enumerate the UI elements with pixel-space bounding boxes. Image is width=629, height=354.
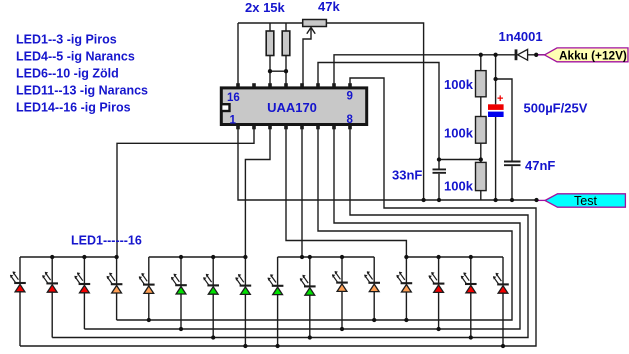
wire 500uF top xyxy=(495,55,497,105)
svg-text:33nF: 33nF xyxy=(392,168,422,183)
LED4 orange xyxy=(107,257,123,320)
svg-text:500µF/25V: 500µF/25V xyxy=(524,101,588,116)
wire pin 5 to LED group3 cathode bus feed xyxy=(301,126,303,257)
wire 47nF branch top xyxy=(496,79,512,161)
wire pin 7 to LED row B route xyxy=(84,126,520,329)
svg-text:LED1--3 -ig Piros: LED1--3 -ig Piros xyxy=(16,33,117,47)
svg-text:LED14--16 -ig Piros: LED14--16 -ig Piros xyxy=(16,101,131,115)
LED1 red xyxy=(10,257,26,346)
LED11 orange xyxy=(332,257,348,329)
svg-text:LED1------16: LED1------16 xyxy=(71,234,142,248)
wire 33nF bottom to Test net xyxy=(438,174,440,200)
resistor R5 100k xyxy=(476,162,487,190)
svg-text:1: 1 xyxy=(230,114,237,126)
wire 500uF bottom to Test net xyxy=(495,117,497,200)
LED9 green xyxy=(268,257,284,346)
wire leader to Akku flag xyxy=(536,54,545,56)
LED13 orange xyxy=(396,257,412,320)
svg-text:LED11--13 -ig Narancs: LED11--13 -ig Narancs xyxy=(16,84,148,98)
svg-text:47k: 47k xyxy=(318,0,340,14)
svg-text:Akku (+12V): Akku (+12V) xyxy=(559,48,627,62)
svg-text:+: + xyxy=(497,93,503,105)
resistor R4 100k xyxy=(476,117,487,144)
LED16 red xyxy=(493,257,509,346)
diode D1 1n4001 cathode bar xyxy=(515,49,518,60)
resistor R1 15k top stub xyxy=(269,23,271,31)
wire pin 16 vertical xyxy=(237,23,239,87)
wire pot right terminal down to Test net xyxy=(326,23,423,200)
LED14 red xyxy=(429,257,445,329)
IC pin stubs xyxy=(236,83,352,129)
wire 33nF junction link xyxy=(439,159,481,161)
LED8 green xyxy=(235,257,251,346)
wire pin 4 to LED group4 cathode bus xyxy=(286,126,503,257)
wire pin 11 to 33nF rail xyxy=(318,63,439,169)
potentiometer wiper arrow xyxy=(307,27,315,33)
svg-text:100k: 100k xyxy=(444,77,474,92)
wire link R1-R2 bottoms xyxy=(270,70,286,72)
IC notch xyxy=(221,104,229,111)
svg-text:100k: 100k xyxy=(444,126,474,141)
LED6 green xyxy=(171,257,187,329)
flag Akku (+12V) xyxy=(545,48,629,62)
LED2 red xyxy=(42,257,58,338)
capacitor C1 negative plate xyxy=(488,112,504,117)
capacitor C3 33nF plates xyxy=(433,169,447,172)
wire pin 6 to LED row A route xyxy=(117,126,512,320)
LED12 orange xyxy=(364,257,380,320)
resistor R2 15k top stub xyxy=(285,23,287,31)
capacitor C1 500uF/25V electrolytic positive plate xyxy=(488,104,504,110)
resistor R3 100k xyxy=(476,71,487,97)
wire pin 1 Test net horizontal xyxy=(238,126,537,200)
resistor R2 15k xyxy=(282,31,290,56)
wire 47nF bottom to Test net xyxy=(511,166,513,200)
flag Test xyxy=(545,194,625,207)
wire 100k chain stubs xyxy=(480,55,482,200)
svg-text:2x 15k: 2x 15k xyxy=(245,0,286,15)
wire pin 2 to LED group1 cathode bus xyxy=(20,126,254,257)
LED7 green xyxy=(203,257,219,338)
LED3 red xyxy=(74,257,90,329)
svg-text:LED6--10 -ig Zöld: LED6--10 -ig Zöld xyxy=(16,67,119,81)
wire wiper to pin 12 xyxy=(303,29,311,88)
wire LED group3 cathode bus xyxy=(278,256,375,258)
svg-text:Test: Test xyxy=(574,194,597,208)
LED5 orange xyxy=(139,257,155,320)
svg-text:8: 8 xyxy=(347,114,354,126)
wire diode to Akku flag xyxy=(528,54,545,56)
wire pin 10 Akku +12V rail xyxy=(334,55,515,87)
svg-text:16: 16 xyxy=(227,92,240,104)
svg-text:100k: 100k xyxy=(444,179,474,194)
potentiometer P1 47k body xyxy=(303,20,327,27)
wire R2 bottom to pin 13 xyxy=(285,56,287,88)
wire R1 bottom to pin 14 xyxy=(269,56,271,88)
op-amp IC U1 UAA170 body xyxy=(221,88,366,125)
svg-text:1n4001: 1n4001 xyxy=(499,29,543,44)
svg-text:UAA170: UAA170 xyxy=(267,100,317,115)
wire top rail pin16 to R1 R2 pot-left xyxy=(238,22,303,24)
wire pin 9 to LED row D route xyxy=(20,78,536,346)
capacitor C2 47nF plates xyxy=(504,162,521,166)
svg-text:47nF: 47nF xyxy=(525,158,555,173)
LED10 green xyxy=(300,257,316,338)
wire pin 8 to LED row C route xyxy=(52,126,528,338)
svg-text:LED4--5 -ig Narancs: LED4--5 -ig Narancs xyxy=(16,50,135,64)
wire leader to Test flag xyxy=(537,199,546,201)
diode D1 1n4001 triangle xyxy=(518,49,528,60)
wire pin 3 to LED group2 cathode bus xyxy=(149,126,270,257)
LED15 red xyxy=(461,257,477,338)
resistor R1 15k xyxy=(266,31,274,56)
svg-text:9: 9 xyxy=(347,91,353,103)
